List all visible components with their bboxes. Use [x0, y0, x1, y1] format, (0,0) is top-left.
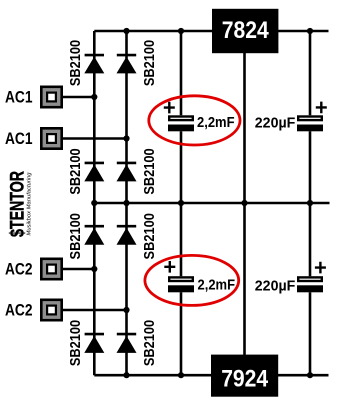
svg-text:SB2100: SB2100 — [141, 148, 158, 194]
svg-text:SB2100: SB2100 — [67, 148, 84, 194]
svg-text:2,2mF: 2,2mF — [198, 276, 236, 293]
svg-text:AC2: AC2 — [5, 300, 33, 319]
svg-text:$TENTOR: $TENTOR — [8, 171, 29, 237]
svg-text:SB2100: SB2100 — [141, 213, 158, 259]
svg-text:AC2: AC2 — [5, 259, 33, 278]
svg-text:SB2100: SB2100 — [67, 40, 84, 86]
svg-text:AC1: AC1 — [5, 129, 33, 148]
svg-text:AC1: AC1 — [5, 88, 33, 107]
svg-text:7924: 7924 — [221, 365, 268, 392]
svg-text:Musikbox Manufacturing: Musikbox Manufacturing — [27, 172, 33, 236]
svg-text:220µF: 220µF — [255, 115, 295, 132]
svg-text:SB2100: SB2100 — [67, 320, 84, 366]
svg-text:220µF: 220µF — [255, 277, 295, 294]
svg-text:SB2100: SB2100 — [141, 320, 158, 366]
svg-text:2,2mF: 2,2mF — [197, 114, 235, 131]
svg-text:SB2100: SB2100 — [141, 40, 158, 86]
svg-text:7824: 7824 — [222, 17, 269, 44]
svg-text:SB2100: SB2100 — [67, 213, 84, 259]
